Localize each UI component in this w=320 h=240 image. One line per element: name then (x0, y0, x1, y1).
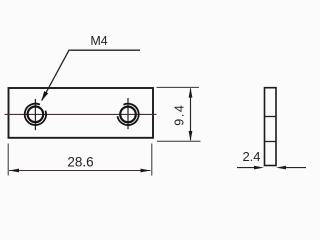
dimension 9.4 line (190, 89, 192, 141)
leader line for M4 label (42, 50, 140, 100)
dimension 28.6 left extension line (7, 144, 9, 176)
dimension 9.4 top arrow (189, 88, 193, 98)
svg-text:M4: M4 (90, 34, 107, 48)
hole H1 thread arc (25, 104, 46, 125)
dimension 9.4 top extension line (157, 86, 200, 88)
dimension 9.4 bottom arrow (189, 131, 193, 141)
hole H1 vertical centerline (34, 99, 36, 130)
dimension 28.6 left arrow (9, 169, 19, 173)
hole H2 vertical centerline (127, 98, 129, 129)
side view lower segment line (265, 141, 277, 143)
hole H2 tapped hole M4 inner circle (120, 107, 136, 123)
dimension 28.6 right extension line (151, 144, 153, 176)
dimension 28.6 line (9, 170, 151, 172)
dimension 2.4 right line (285, 167, 306, 169)
front view plate outline (9, 88, 154, 138)
side view upper segment line (265, 116, 277, 118)
dimension 2.4 right arrow (276, 166, 286, 170)
dimension 28.6 right arrow (141, 169, 151, 173)
svg-text:2.4: 2.4 (242, 149, 260, 164)
hole H1 tapped hole M4 inner circle (28, 107, 44, 123)
hole H2 thread arc (117, 104, 138, 125)
side view plate outline (265, 88, 277, 166)
svg-text:9.4: 9.4 (173, 104, 187, 126)
dimension 9.4 bottom extension line (157, 140, 201, 142)
horizontal centerline through holes (5, 113, 157, 115)
dimension 2.4 left arrow (254, 166, 264, 170)
leader arrowhead (41, 91, 48, 101)
svg-text:28.6: 28.6 (67, 155, 93, 170)
dimension 2.4 left line (237, 167, 255, 169)
